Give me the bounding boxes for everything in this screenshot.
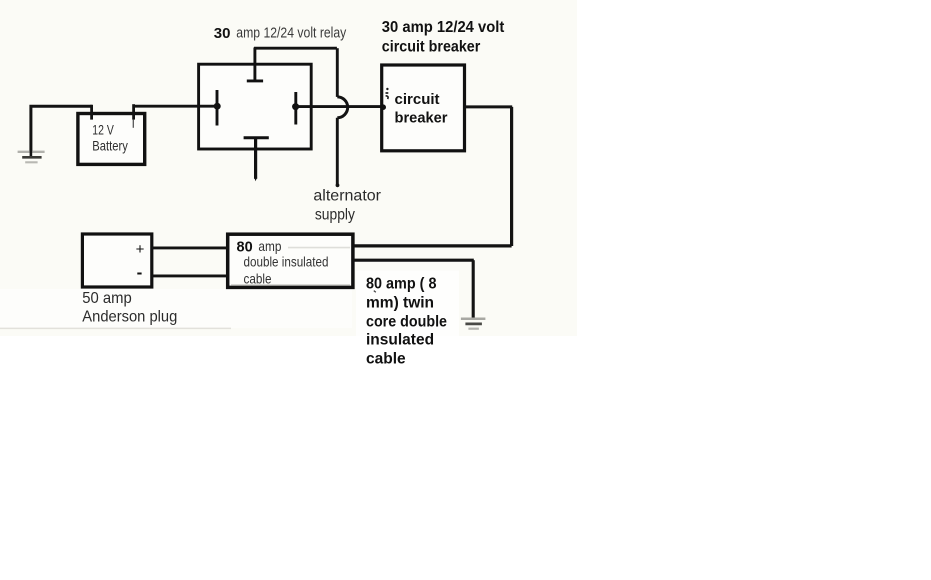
80 amp cable box xyxy=(228,234,353,287)
label 30 amp 12/24 volt circuit breaker xyxy=(382,19,505,56)
svg-text:30 amp 12/24 volt: 30 amp 12/24 volt xyxy=(382,19,505,36)
svg-text:supply: supply xyxy=(315,206,355,223)
circuit breaker CB1 box xyxy=(382,65,465,151)
label alternator supply xyxy=(313,187,381,223)
wire 80amp box to ground run xyxy=(353,259,474,262)
label 80 amp (8mm) twin core double insulated cable xyxy=(366,275,447,367)
svg-text:50 amp: 50 amp xyxy=(82,290,132,307)
wire Anderson plug + to 80amp box xyxy=(152,246,228,249)
relay pin 87 contact (right) xyxy=(292,92,299,125)
label 30 amp 12/24 volt relay xyxy=(214,24,347,42)
white label patch behind cable caption xyxy=(356,271,459,337)
wire circuit breaker output right xyxy=(465,105,513,108)
relay pin 30 contact (left) xyxy=(198,90,221,126)
relay coil terminal 85 (bottom) xyxy=(244,138,269,182)
wire relay coil 86 top run to alternator drop xyxy=(254,47,337,50)
wire Anderson plug - to 80amp box xyxy=(152,274,228,277)
svg-text:12 V: 12 V xyxy=(92,122,114,138)
svg-text:circuit: circuit xyxy=(395,91,440,108)
svg-text:-: - xyxy=(137,263,143,282)
svg-text:insulated: insulated xyxy=(366,332,434,349)
wire right vertical drop xyxy=(510,107,513,246)
svg-text:amp: amp xyxy=(258,238,281,254)
svg-text:cable: cable xyxy=(366,351,406,368)
wire battery positive to relay pin 30 xyxy=(134,105,215,108)
relay K1 box xyxy=(199,64,312,149)
svg-text:core double: core double xyxy=(366,313,447,330)
junction dot at breaker input xyxy=(380,104,386,110)
scanned-page warm background area xyxy=(0,0,577,336)
ground (battery negative) xyxy=(18,150,45,162)
label 50 amp Anderson plug xyxy=(82,290,177,326)
svg-text:mm) twin: mm) twin xyxy=(366,294,434,311)
wire drop to 80amp cable box xyxy=(353,244,512,247)
ground (cable earth) xyxy=(461,319,486,329)
svg-text:breaker: breaker xyxy=(395,109,448,126)
svg-text:Anderson plug: Anderson plug xyxy=(82,308,177,325)
wire hop (semicircle jump) over relay output wire xyxy=(337,97,347,118)
svg-text:80 amp ( 8: 80 amp ( 8 xyxy=(366,275,437,292)
svg-text:cable: cable xyxy=(244,271,272,287)
battery left terminal stub xyxy=(90,105,93,120)
wire relay pin 87 to circuit breaker xyxy=(296,105,382,108)
svg-text:amp 12/24 volt relay: amp 12/24 volt relay xyxy=(236,24,346,41)
relay coil terminal 86 (top) xyxy=(247,48,263,81)
svg-text:Battery: Battery xyxy=(92,138,128,154)
svg-text:+: + xyxy=(136,241,145,258)
wire alternator drop lower segment xyxy=(336,118,340,188)
svg-text:circuit breaker: circuit breaker xyxy=(382,38,481,55)
Anderson plug box xyxy=(82,234,151,287)
svg-text:alternator: alternator xyxy=(313,187,381,204)
wire battery left terminal to ground xyxy=(31,106,92,152)
white patch behind 50 amp Anderson plug caption xyxy=(0,289,352,328)
svg-text:30: 30 xyxy=(214,25,231,42)
wire alternator drop upper segment xyxy=(336,48,339,97)
wire ground drop xyxy=(472,260,475,319)
svg-text:double insulated: double insulated xyxy=(244,254,329,270)
battery right terminal stub xyxy=(132,104,135,128)
battery B1 12V xyxy=(78,114,145,165)
